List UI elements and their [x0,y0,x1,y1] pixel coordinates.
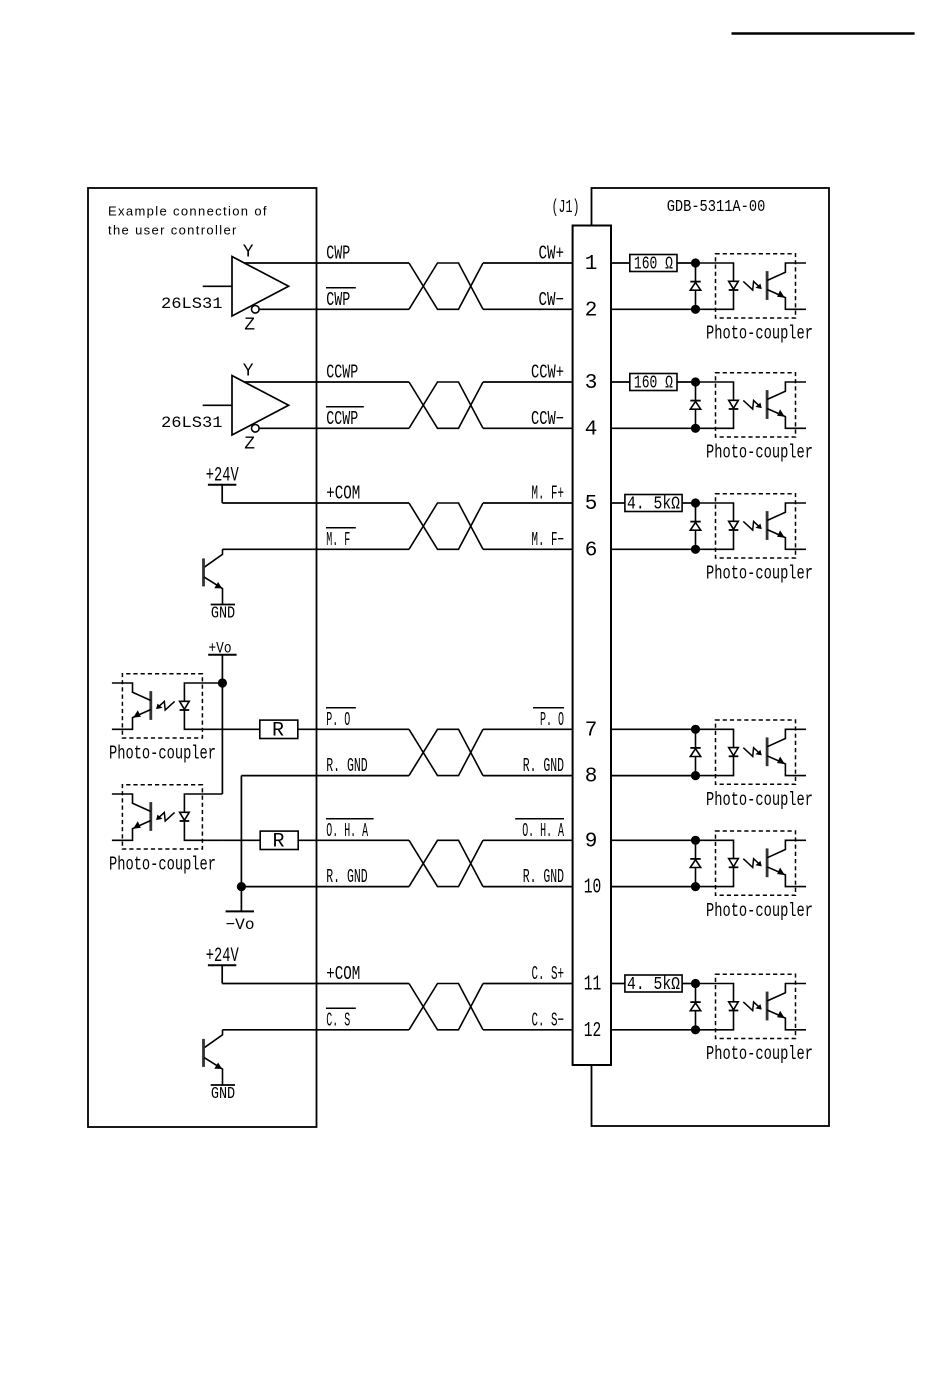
node dot pin 11 [691,979,700,988]
node dot R.GND / -Vo [237,882,246,891]
protection diode across pins 3-4 [690,382,700,428]
svg-text:9: 9 [585,830,598,853]
photo-coupler (user side, O. H. A) [112,785,223,849]
node dot pin 6 [691,545,700,554]
photo-coupler (pins 3-4) [696,373,807,437]
svg-text:CWP: CWP [326,243,350,265]
line driver 26LS31 (rows 1-2) [161,243,289,336]
+Vo supply symbol [208,640,236,684]
wire pin 4 connector to node [611,427,696,429]
svg-text:160 Ω: 160 Ω [634,374,673,394]
wire row pin 12 (twist to connector J1) [483,1029,573,1031]
wire pin 8 connector to node [611,775,696,777]
wire row pin 7 (twist to connector J1) [483,728,573,730]
svg-text:O. H. A: O. H. A [326,820,368,842]
svg-text:Photo-coupler: Photo-coupler [109,854,216,876]
svg-text:5: 5 [585,493,598,516]
resistor 160 Ω (pin 1) [630,255,677,272]
protection diode across pins 1-2 [690,263,700,309]
top-right rule line [732,32,915,35]
twisted pair crossing rows 3-4 [409,382,483,428]
wire pin 11 connector to resistor [611,983,625,985]
node dot pin 5 [691,498,700,507]
svg-text:10: 10 [584,877,602,900]
svg-text:1: 1 [585,253,598,276]
line driver 26LS31 (rows 3-4) [161,362,289,455]
wire pin 9 connector to node [611,839,696,841]
svg-text:R. GND: R. GND [523,755,564,777]
svg-text:R. GND: R. GND [326,866,367,888]
resistor 4.5kΩ (pin 11) [625,975,682,992]
wire pin 6 connector to node [611,548,696,550]
svg-text:11: 11 [584,974,602,997]
svg-text:160 Ω: 160 Ω [634,255,673,275]
-Vo supply symbol [226,911,255,934]
wire pin 7 connector to node [611,728,696,730]
svg-text:C. S+: C. S+ [532,963,565,985]
wire coupler output to resistor R (P.O) [222,728,259,730]
svg-text:Photo-coupler: Photo-coupler [706,789,813,811]
svg-text:Photo-coupler: Photo-coupler [706,323,813,345]
svg-text:Photo-coupler: Photo-coupler [706,442,813,464]
wire row pin 12 (left of twist) [223,1029,410,1031]
node dot pin 7 [691,725,700,734]
svg-text:M. F: M. F [326,529,350,551]
wire coupler output to resistor R (O.H.A) [222,839,260,841]
wire row pin 1 (left of twist) [244,262,409,264]
protection diode across pins 11-12 [690,984,700,1030]
svg-text:O. H. A: O. H. A [522,820,564,842]
wire row pin 5 (left of twist) [222,502,409,504]
wire pin 3 connector to resistor [611,381,630,383]
svg-text:−Vo: −Vo [226,916,255,934]
svg-text:M. F+: M. F+ [532,483,565,505]
svg-text:R. GND: R. GND [523,866,564,888]
protection diode across pins 9-10 [690,840,700,886]
svg-text:CCWP: CCWP [326,408,358,430]
svg-text:GDB-5311A-00: GDB-5311A-00 [667,198,766,217]
svg-text:R: R [272,720,284,743]
photo-coupler (user side, P. O) [112,674,223,738]
photo-coupler (pins 5-6) [696,494,807,558]
wire row pin 8 (left of twist) [241,775,409,777]
svg-text:3: 3 [585,372,598,395]
wire row pin 7 (left of twist) [298,728,409,730]
connector J1 body [573,226,611,1066]
twisted pair crossing rows 7-8 [409,729,483,775]
wire row pin 11 (twist to connector J1) [483,983,573,985]
wire pin 1 connector to resistor [611,262,630,264]
svg-text:P. O: P. O [540,709,564,731]
twisted pair crossing rows 9-10 [409,840,483,886]
wire resistor to node (pin 1) [677,262,696,264]
svg-text:R. GND: R. GND [326,755,367,777]
node dot pin 10 [691,882,700,891]
svg-text:CCW+: CCW+ [531,362,564,384]
wire resistor to node (pin 11) [682,983,695,985]
protection diode across pins 7-8 [690,729,700,775]
svg-text:R: R [272,831,284,854]
+24V supply symbol (row 5) [206,465,239,503]
wire row pin 1 (twist to connector J1) [483,262,573,264]
svg-text:4. 5kΩ: 4. 5kΩ [627,495,680,515]
wire row pin 10 (twist to connector J1) [483,886,573,888]
svg-text:8: 8 [585,766,598,789]
svg-text:C. S: C. S [326,1009,350,1031]
resistor R (P.O) [260,720,298,738]
wire row pin 11 (left of twist) [222,983,409,985]
protection diode across pins 5-6 [690,503,700,549]
wire row pin 4 (left of twist) [259,427,409,429]
wire row pin 6 (left of twist) [223,548,410,550]
svg-text:(J1): (J1) [552,198,580,218]
wire row pin 2 (left of twist) [259,308,409,310]
wire row pin 2 (twist to connector J1) [483,308,573,310]
svg-text:4: 4 [585,418,598,441]
wire row pin 5 (twist to connector J1) [483,502,573,504]
wire row pin 3 (left of twist) [244,381,409,383]
twisted pair crossing rows 5-6 [409,503,483,549]
svg-text:CCWP: CCWP [326,362,358,384]
svg-text:M. F−: M. F− [532,529,565,551]
wire pin 10 connector to node [611,886,696,888]
wire row pin 6 (twist to connector J1) [483,548,573,550]
svg-text:Example connection of: Example connection of [108,204,268,219]
node dot pin 3 [691,377,700,386]
twisted pair crossing rows 1-2 [409,263,483,309]
wire row pin 4 (twist to connector J1) [483,427,573,429]
+24V supply symbol (row 11) [206,945,239,983]
wire row pin 8 (twist to connector J1) [483,775,573,777]
wire pin 5 connector to resistor [611,502,625,504]
svg-text:+COM: +COM [326,483,360,505]
transistor (row 6) [204,549,236,622]
svg-text:the user controller: the user controller [108,223,238,238]
node dot pin 9 [691,836,700,845]
wire row pin 9 (left of twist) [298,839,409,841]
photo-coupler (pins 7-8) [696,720,807,784]
photo-coupler (pins 9-10) [696,831,807,895]
svg-text:6: 6 [585,539,598,562]
wire row pin 10 (left of twist) [241,886,409,888]
GDB-5311A-00 box [592,188,830,1126]
svg-text:Photo-coupler: Photo-coupler [706,1043,813,1065]
svg-text:Photo-coupler: Photo-coupler [109,743,216,765]
node dot pin 1 [691,258,700,267]
+Vo rail wire down to second coupler [221,683,223,794]
wire pin 2 connector to node [611,308,696,310]
svg-text:CWP: CWP [326,289,350,311]
R.GND bus vertical wire [240,776,242,912]
wire pin 12 connector to node [611,1029,696,1031]
label: Example connection of the user controller [108,204,268,238]
node dot pin 8 [691,771,700,780]
photo-coupler (pins 1-2) [696,254,807,318]
node dot pin 2 [691,305,700,314]
wire row pin 9 (twist to connector J1) [483,839,573,841]
photo-coupler (pins 11-12) [696,974,807,1038]
svg-text:Photo-coupler: Photo-coupler [706,900,813,922]
wire resistor to node (pin 5) [682,502,695,504]
user controller box [88,188,317,1127]
resistor R (O.H.A) [260,831,298,849]
svg-text:CCW−: CCW− [531,408,564,430]
svg-text:CW+: CW+ [539,243,565,265]
wire resistor to node (pin 3) [677,381,696,383]
svg-text:12: 12 [584,1020,602,1043]
svg-text:Photo-coupler: Photo-coupler [706,563,813,585]
wire row pin 3 (twist to connector J1) [483,381,573,383]
resistor 4.5kΩ (pin 5) [625,495,682,512]
node dot +Vo [218,678,227,687]
svg-text:7: 7 [585,719,598,742]
node dot pin 4 [691,424,700,433]
svg-text:CW−: CW− [539,289,565,311]
svg-text:2: 2 [585,299,598,322]
resistor 160 Ω (pin 3) [630,374,677,391]
svg-text:4. 5kΩ: 4. 5kΩ [627,975,680,995]
node dot pin 12 [691,1025,700,1034]
svg-text:C. S−: C. S− [532,1009,565,1031]
svg-text:+COM: +COM [326,963,360,985]
transistor (row 12) [204,1030,236,1103]
twisted pair crossing rows 11-12 [409,984,483,1030]
svg-text:P. O: P. O [326,709,350,731]
